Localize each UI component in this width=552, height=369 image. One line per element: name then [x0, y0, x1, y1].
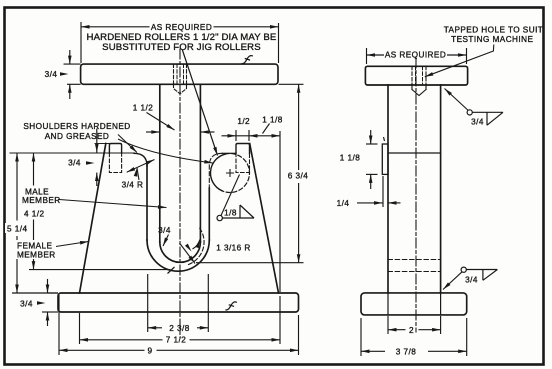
dim 6 3/4: bar bottom extension [279, 83, 304, 85]
column lines through base [388, 293, 441, 315]
upper 3/4 finish symbol leader [445, 89, 469, 111]
male member rounded bottom [160, 242, 201, 262]
top bar (side view) [365, 66, 467, 85]
shoulder surface line with extension (left) [10, 152, 135, 154]
trapezoid right slant edge [250, 144, 279, 294]
finish mark f on base bar [225, 300, 236, 313]
dim 1 1/2 line [146, 131, 160, 133]
svg-text:MEMBER: MEMBER [22, 196, 61, 205]
3/4 R double arrow [146, 158, 155, 165]
leader from roller note to circle [182, 50, 217, 156]
drill point (side view) [412, 85, 426, 96]
base top extension tick right of 3/4 [48, 292, 58, 294]
slot bottom extension line (4 1/2) [29, 269, 171, 271]
svg-text:SUBSTITUTED FOR JIG ROLLERS: SUBSTITUTED FOR JIG ROLLERS [102, 42, 261, 53]
trapezoid left slant edge [80, 144, 106, 294]
dim 5 1/4 vertical [16, 153, 18, 221]
hidden male/slot bottom lines (dashed) [388, 260, 441, 272]
tapped hole thread dashes (side view) [412, 66, 426, 85]
AS REQUIRED dimension line [81, 26, 150, 28]
svg-text:1 1/8: 1 1/8 [340, 153, 360, 162]
shoulder pad (side view) [382, 144, 388, 174]
svg-text:3/4: 3/4 [465, 276, 478, 285]
leader 1 1/2 [147, 113, 175, 131]
1 1/8 ticks (side) [366, 143, 378, 145]
1/4 extension (side) [382, 176, 384, 207]
svg-text:3/4: 3/4 [68, 159, 81, 168]
svg-text:1 1/8: 1 1/8 [262, 116, 282, 125]
SHOULDERS leader to roller [118, 139, 213, 163]
shoulder line (side view) [388, 152, 441, 154]
dim 4 1/2 vertical [33, 153, 35, 186]
1/2 + 1 1/8 dimension line [222, 135, 281, 137]
svg-text:3/4 R: 3/4 R [122, 180, 144, 189]
1/2 + 1 1/8 [228, 134, 237, 138]
shoulder fillet right [209, 153, 222, 194]
2 dim [388, 328, 397, 332]
1 1/2 dim [151, 130, 160, 134]
left pad hidden body (dashed) [109, 153, 121, 173]
SIDE VIEW [361, 58, 468, 332]
svg-text:SHOULDERS HARDENED: SHOULDERS HARDENED [23, 122, 130, 131]
1/4 side [374, 201, 383, 205]
as required side [367, 53, 376, 57]
svg-text:3/4: 3/4 [158, 226, 171, 235]
1 1/8 side [369, 136, 373, 145]
roller note leader [213, 147, 219, 156]
AS REQUIRED extension lines [80, 22, 82, 63]
roller center cross [227, 170, 234, 177]
2 extension lines [387, 316, 389, 334]
9 extension lines [58, 295, 60, 355]
shoulder surface line (right short) [222, 152, 236, 154]
AS REQUIRED (side) dim line [367, 54, 385, 56]
male member column right edge [199, 84, 201, 242]
finish mark f on top bar [241, 53, 252, 66]
2 dimension line [388, 329, 406, 331]
svg-text:3/4: 3/4 [45, 70, 58, 79]
dim 6 3/4 vertical [298, 84, 300, 170]
1/4 dim lines (side) [357, 202, 383, 204]
9 dimension line [59, 349, 145, 351]
7 1/2 dimension line [80, 339, 163, 341]
base bar (front view) [58, 293, 299, 312]
base bar (side view) [361, 293, 467, 315]
svg-text:1/2: 1/2 [237, 117, 250, 126]
6 3/4 [297, 84, 301, 93]
svg-text:1/8: 1/8 [224, 208, 237, 217]
svg-text:4 1/2: 4 1/2 [24, 209, 44, 218]
2 3/8 [148, 326, 157, 330]
tapped hole leader [424, 72, 433, 78]
centerline (front view) [179, 49, 181, 338]
dim 3/4 base vertical [47, 279, 49, 293]
7 1/2 extension lines [79, 313, 81, 344]
3 7/8 extension lines [360, 318, 362, 356]
base top extension line (5 1/4) [12, 292, 58, 294]
finish tick on slot arc [168, 267, 175, 274]
svg-text:MEMBER: MEMBER [17, 250, 56, 259]
upper 3/4 symbol arrow [443, 87, 452, 95]
3 7/8 dimension line [361, 350, 385, 352]
female member slot left edge [146, 165, 148, 240]
roller circle solid arc [210, 154, 224, 191]
female member leader [80, 240, 89, 245]
1/8 finish symbol (front view) [223, 205, 255, 218]
svg-text:1 1/2: 1 1/2 [133, 104, 153, 113]
lower 3/4 finish symbol [466, 270, 497, 281]
7 1/2 [80, 338, 89, 342]
svg-text:7 1/2: 7 1/2 [166, 336, 186, 345]
3/4 pad dim [95, 144, 99, 153]
column left edge [387, 85, 389, 293]
AS REQUIRED (side) extensions [366, 48, 368, 64]
1/2 and 1 1/8 extension lines [235, 130, 237, 141]
roller circle dashed arc [222, 153, 250, 192]
slot radius arrow line [180, 243, 196, 264]
3/4 top bar [68, 56, 72, 65]
1/8 symbol leader to roller center [221, 175, 240, 216]
left shoulder pad [109, 144, 121, 154]
svg-text:AS REQUIRED: AS REQUIRED [385, 51, 446, 60]
svg-text:2: 2 [409, 326, 414, 335]
bar-left extension ticks [64, 63, 81, 65]
svg-text:1/4: 1/4 [337, 199, 350, 208]
small curved arrow near dashed arc [193, 240, 200, 250]
FEMALE MEMBER leader [53, 242, 89, 248]
drill point below bar (dashed V) [174, 84, 187, 94]
svg-text:9: 9 [147, 346, 152, 355]
svg-text:3/4: 3/4 [471, 118, 484, 127]
tapped hole thread dashes (front view) [174, 64, 187, 84]
right shoulder pad [236, 144, 250, 154]
column right edge [440, 85, 442, 293]
svg-text:AND GREASED: AND GREASED [45, 132, 110, 141]
2 3/8 dimension line [148, 327, 162, 329]
svg-text:TESTING MACHINE: TESTING MACHINE [451, 35, 533, 44]
centerline (side view) [415, 58, 417, 332]
lower 3/4 symbol arrow [442, 282, 451, 290]
dim 6 3/4: male bottom extension [196, 262, 304, 264]
svg-text:2 3/8: 2 3/8 [169, 324, 189, 333]
svg-text:3/4: 3/4 [20, 299, 33, 308]
shoulder fillet left [134, 153, 147, 166]
svg-text:FEMALE: FEMALE [17, 242, 53, 251]
male member leader [158, 205, 167, 209]
female member slot bottom arc [147, 240, 209, 271]
dim 3/4 left pad vertical [96, 129, 98, 153]
lower 3/4 finish symbol leader [443, 272, 462, 290]
3/4 R double arrow [127, 160, 155, 173]
male member column left edge [159, 84, 161, 242]
svg-text:5 1/4: 5 1/4 [7, 224, 27, 233]
shoulders leaders [130, 145, 139, 153]
3/4 slot-bottom radius leader [163, 235, 169, 247]
svg-text:TAPPED HOLE TO SUIT: TAPPED HOLE TO SUIT [444, 25, 544, 34]
3/4 base [46, 285, 50, 294]
slot radius arrow + second head [188, 256, 196, 265]
SHOULDERS leader to left pad [118, 135, 137, 153]
svg-text:3 7/8: 3 7/8 [396, 348, 416, 357]
dashed arc right of male bottom [186, 228, 204, 265]
base bottom extension tick [42, 311, 58, 313]
3 7/8 [361, 350, 370, 354]
svg-text:1 3/16 R: 1 3/16 R [216, 244, 251, 253]
leader 1 1/8 [263, 124, 270, 134]
3/4 slot radius [161, 238, 168, 247]
dim 3/4 top bar vertical [69, 50, 71, 64]
left pad top extension tick [95, 143, 109, 145]
svg-text:AS REQUIRED: AS REQUIRED [151, 23, 212, 32]
1 1/8 dim vertical (side) [370, 130, 372, 144]
upper 3/4 finish symbol [472, 112, 503, 125]
as required L/R front [81, 25, 90, 29]
female member slot right edge [208, 188, 210, 240]
2 3/8 extension lines [147, 274, 149, 332]
5 1/4 + 4 1/2 [15, 153, 19, 162]
right pad hidden body (dashed) [236, 153, 250, 173]
TAPPED HOLE leader [425, 45, 494, 77]
MALE MEMBER leader [53, 199, 167, 208]
9 [59, 349, 68, 353]
3/4 R leader up arrow [137, 168, 139, 180]
svg-text:6 3/4: 6 3/4 [288, 172, 308, 181]
ARROWHEADS [15, 25, 467, 353]
top roller bar (front view) [81, 64, 278, 84]
